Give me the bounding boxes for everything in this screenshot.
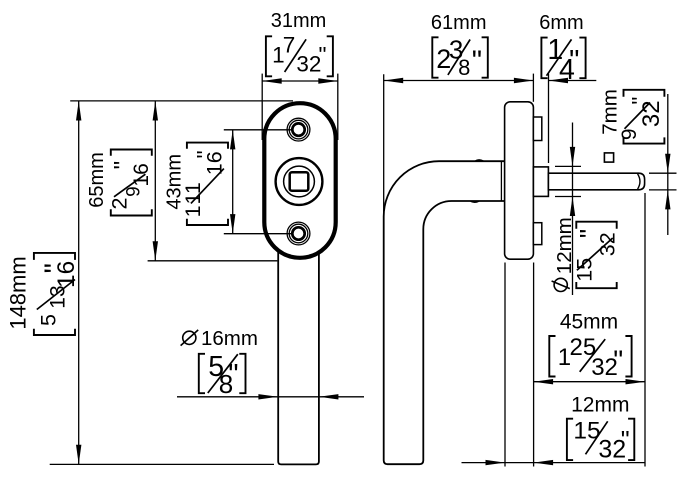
dim line 65mm — [154, 101, 156, 261]
arrow 61mm left — [384, 78, 404, 83]
svg-text:5: 5 — [37, 314, 61, 326]
ext line: plate top (shared 148mm / 65mm) — [70, 100, 293, 102]
ext line: 65mm bottom — [148, 260, 278, 262]
svg-text:": " — [40, 263, 72, 273]
svg-text:": " — [569, 45, 579, 77]
bracket [5/8"] — [199, 351, 246, 399]
ext line: 31mm right — [337, 74, 339, 140]
ext line: diam12 top — [555, 165, 581, 167]
svg-text:8: 8 — [458, 55, 470, 80]
ext line: 7mm top — [649, 172, 677, 174]
ext line: 43mm top (hole centre) — [224, 129, 293, 131]
arrow 148mm down — [76, 445, 81, 465]
dim line 43mm — [232, 130, 234, 234]
arrow 45mm right — [626, 379, 646, 384]
ext line: 61mm right / 6mm left — [532, 74, 534, 102]
svg-text:16mm: 16mm — [201, 327, 258, 350]
svg-text:2: 2 — [107, 198, 131, 210]
spindle end chamfer arc — [638, 174, 640, 189]
slash of 148mm fraction (screen oriented) — [37, 280, 75, 310]
arrow 65mm down — [153, 241, 158, 261]
bracket [15/32"] — [567, 418, 634, 464]
slash of diam12 fraction (screen oriented) — [577, 238, 613, 270]
svg-text:148mm: 148mm — [5, 256, 30, 329]
neck end face line — [500, 162, 502, 201]
svg-text:65mm: 65mm — [86, 152, 108, 208]
ext line: 45mm right (spindle end) — [644, 193, 646, 467]
arrow 31mm left — [262, 78, 282, 83]
arrow 12mm left-side — [486, 460, 506, 465]
ext line: plate front face — [504, 263, 506, 467]
svg-text:6mm: 6mm — [539, 12, 583, 34]
rosette oval plate (front view) — [264, 103, 335, 258]
handle grip + neck (side view outline) — [384, 161, 505, 464]
svg-text:": " — [228, 359, 238, 391]
arrow 12mm right-side — [534, 460, 554, 465]
svg-text:": " — [319, 43, 327, 68]
bracket [5 13/16"] rotated — [34, 253, 80, 335]
handle bar (front view) — [278, 250, 319, 464]
arrow 148mm up — [76, 101, 81, 121]
bottom screw hole — [287, 222, 310, 245]
svg-text:12mm: 12mm — [571, 393, 629, 416]
svg-text:45mm: 45mm — [560, 311, 618, 334]
bracket [1 25/32"] — [549, 334, 631, 381]
bracket [2 3/8"] — [432, 35, 488, 80]
top fixing clip — [533, 117, 541, 141]
square symbol (7mm square spindle) — [604, 153, 613, 162]
svg-text:7: 7 — [283, 33, 296, 58]
bracket [1/4"] — [541, 34, 585, 86]
centre boss — [276, 158, 323, 205]
svg-text:1: 1 — [181, 205, 205, 217]
svg-text:": " — [110, 161, 137, 170]
svg-text:31mm: 31mm — [271, 10, 327, 32]
bracket [9/32"] rotated — [618, 90, 665, 144]
label diam 12mm (rotated) : drawn diameter symbol + text — [554, 278, 567, 291]
svg-text:": " — [192, 150, 218, 158]
slash of 7mm fraction (screen oriented) — [625, 103, 651, 129]
bracket [1 11/16"] rotated — [181, 143, 228, 225]
dim line 31mm — [262, 80, 338, 82]
ext line: 148mm bottom — [50, 463, 274, 465]
arrow 43mm up — [230, 130, 235, 150]
arrow 6mm — [549, 78, 569, 83]
label diam 16mm : drawn diameter symbol + text — [183, 331, 196, 344]
arrow 61mm right — [514, 78, 534, 83]
svg-text:15: 15 — [573, 418, 600, 445]
bracket [1 7/32"] — [266, 33, 333, 77]
svg-text:": " — [613, 345, 623, 376]
arrow 31mm right — [318, 78, 338, 83]
bracket [2 9/16"] rotated — [107, 150, 152, 216]
svg-text:61mm: 61mm — [431, 12, 487, 34]
arrow 65mm up — [153, 101, 158, 121]
dim line 12mm — [462, 462, 646, 464]
arrow diam16 right — [319, 394, 339, 399]
svg-text:7mm: 7mm — [599, 89, 622, 135]
ext line: 7mm bottom — [649, 189, 677, 191]
spindle collar — [533, 167, 548, 197]
slash of 43mm fraction (screen oriented) — [191, 169, 224, 204]
svg-text:15: 15 — [573, 258, 597, 282]
arrow 45mm left — [534, 379, 554, 384]
neck weld wave (bottom edge) — [471, 201, 480, 202]
rosette plate (side view) — [505, 102, 534, 259]
svg-text:9: 9 — [618, 128, 641, 140]
dim line 7mm — [667, 94, 669, 235]
svg-text:": " — [472, 45, 482, 77]
ext line: 43mm bottom (hole centre) — [224, 233, 293, 235]
bottom fixing clip — [533, 223, 541, 245]
ext line: 6mm right — [548, 74, 550, 163]
arrow 43mm down — [230, 214, 235, 234]
svg-text:": " — [621, 427, 630, 455]
dim line 6mm tail — [549, 80, 597, 82]
ext line: 61mm left — [383, 74, 385, 216]
dim line 61mm — [384, 80, 534, 82]
dim line diam16 — [177, 396, 364, 398]
ext line: 31mm left — [261, 74, 263, 140]
ext line: 45mm left (plate back face) — [533, 263, 535, 467]
dim line 45mm — [534, 381, 645, 383]
arrow 7mm down — [665, 154, 670, 174]
square spindle (side view) — [548, 173, 644, 190]
square spindle hole — [290, 172, 309, 191]
arrow diam12 down — [570, 147, 575, 167]
ext line: diam12 bottom — [555, 196, 581, 198]
dim line diam12 — [572, 123, 574, 296]
svg-text:": " — [574, 229, 604, 238]
neck weld wave (top edge) — [475, 160, 484, 161]
arrow diam16 left — [258, 394, 278, 399]
bracket [15/32"] rotated — [573, 222, 620, 289]
dim line 148mm — [78, 101, 80, 464]
arrow 7mm up — [665, 190, 670, 210]
arrow diam12 up — [570, 197, 575, 217]
top screw hole — [287, 118, 310, 141]
slash of 65mm fraction (screen oriented) — [114, 174, 145, 197]
